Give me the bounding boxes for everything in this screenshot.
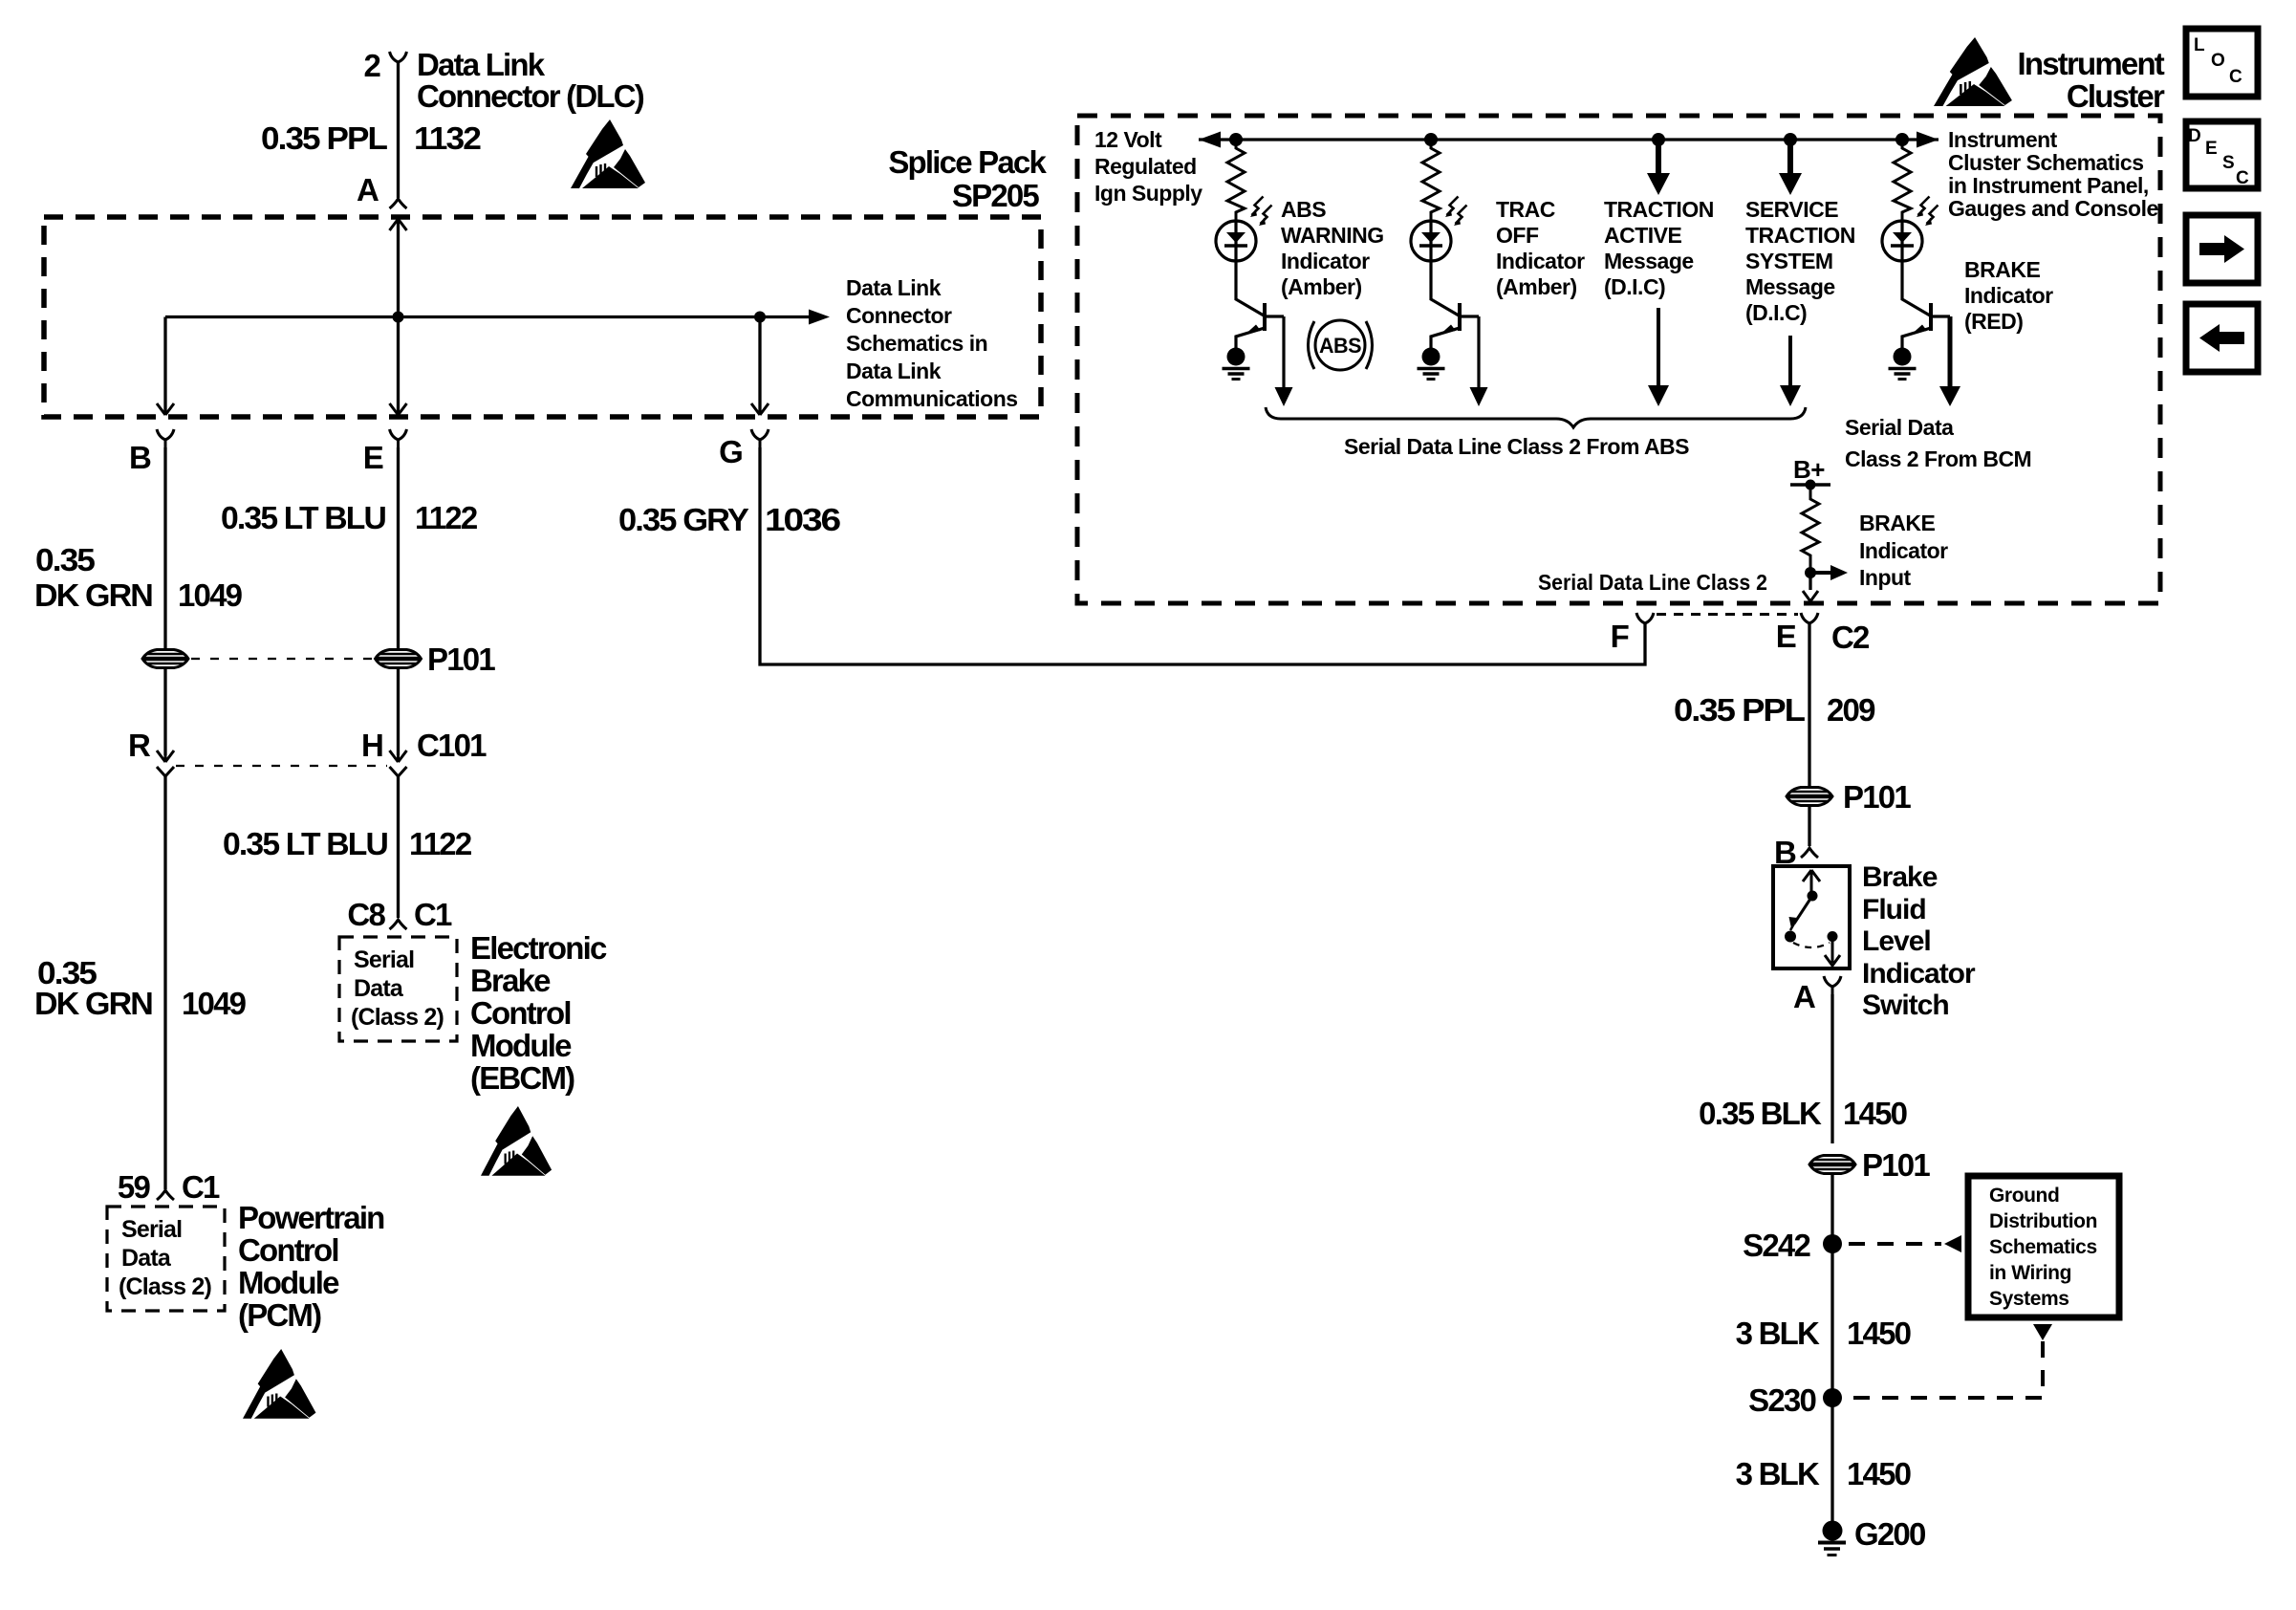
svg-text:C2: C2 — [1831, 620, 1870, 655]
svg-text:Powertrain: Powertrain — [238, 1200, 384, 1235]
svg-text:B: B — [1774, 835, 1796, 870]
svg-text:1132: 1132 — [414, 120, 482, 156]
svg-text:Serial: Serial — [121, 1216, 182, 1243]
svg-text:Indicator: Indicator — [1496, 249, 1585, 273]
svg-text:Indicator: Indicator — [1964, 283, 2053, 308]
svg-text:Systems: Systems — [1989, 1288, 2069, 1310]
svg-text:DK GRN: DK GRN — [34, 986, 152, 1021]
svg-text:Data Link: Data Link — [417, 47, 546, 82]
svg-text:TRAC: TRAC — [1496, 197, 1555, 222]
svg-text:Data: Data — [354, 975, 404, 1002]
svg-text:Electronic: Electronic — [470, 930, 607, 966]
svg-text:Message: Message — [1604, 249, 1694, 273]
svg-text:B+: B+ — [1793, 455, 1825, 484]
svg-text:B: B — [129, 440, 151, 475]
svg-text:(Class 2): (Class 2) — [351, 1004, 444, 1031]
svg-text:A: A — [357, 172, 379, 207]
svg-text:Data Link: Data Link — [846, 359, 942, 383]
svg-text:Brake: Brake — [470, 963, 551, 998]
svg-text:1049: 1049 — [178, 577, 243, 613]
svg-text:3 BLK: 3 BLK — [1736, 1456, 1820, 1491]
svg-text:3 BLK: 3 BLK — [1736, 1316, 1820, 1351]
svg-text:E: E — [2205, 139, 2218, 159]
svg-text:S: S — [2222, 153, 2235, 173]
svg-text:209: 209 — [1827, 692, 1875, 728]
svg-text:S242: S242 — [1743, 1228, 1810, 1263]
svg-text:in Instrument Panel,: in Instrument Panel, — [1948, 173, 2149, 198]
svg-text:0.35 PPL: 0.35 PPL — [1674, 692, 1806, 728]
svg-text:(D.I.C): (D.I.C) — [1745, 300, 1807, 325]
svg-text:C101: C101 — [417, 728, 487, 763]
svg-text:BRAKE: BRAKE — [1964, 257, 2040, 282]
svg-text:ACTIVE: ACTIVE — [1604, 223, 1682, 248]
svg-text:BRAKE: BRAKE — [1859, 511, 1935, 535]
svg-text:Indicator: Indicator — [1859, 538, 1948, 563]
svg-text:(PCM): (PCM) — [238, 1297, 321, 1333]
svg-text:Module: Module — [470, 1028, 572, 1063]
svg-text:(D.I.C): (D.I.C) — [1604, 274, 1665, 299]
svg-text:1450: 1450 — [1843, 1096, 1907, 1131]
svg-text:TRACTION: TRACTION — [1745, 223, 1855, 248]
svg-text:Indicator: Indicator — [1862, 958, 1976, 990]
svg-text:Connector (DLC): Connector (DLC) — [417, 78, 644, 114]
svg-text:E: E — [363, 440, 383, 475]
svg-text:(EBCM): (EBCM) — [470, 1060, 574, 1096]
svg-text:S230: S230 — [1748, 1382, 1815, 1418]
svg-text:F: F — [1611, 619, 1629, 654]
svg-text:ABS: ABS — [1319, 334, 1361, 358]
svg-text:OFF: OFF — [1496, 223, 1539, 248]
svg-text:Input: Input — [1859, 565, 1912, 590]
svg-text:59: 59 — [118, 1169, 151, 1205]
svg-text:Control: Control — [470, 995, 571, 1031]
svg-text:Message: Message — [1745, 274, 1835, 299]
svg-text:C: C — [2236, 168, 2249, 188]
svg-text:R: R — [128, 728, 151, 763]
svg-text:P101: P101 — [427, 642, 495, 677]
svg-text:1450: 1450 — [1847, 1316, 1911, 1351]
svg-text:Serial Data Line Class 2 From: Serial Data Line Class 2 From ABS — [1344, 434, 1689, 459]
svg-text:Serial Data: Serial Data — [1845, 415, 1954, 440]
svg-text:SERVICE: SERVICE — [1745, 197, 1838, 222]
svg-text:Communications: Communications — [846, 386, 1018, 411]
svg-text:Ign Supply: Ign Supply — [1094, 181, 1202, 206]
svg-text:A: A — [1793, 979, 1815, 1014]
svg-text:Cluster: Cluster — [2067, 78, 2165, 114]
svg-text:12 Volt: 12 Volt — [1094, 127, 1162, 152]
svg-text:L: L — [2194, 35, 2205, 55]
svg-text:2: 2 — [363, 48, 380, 83]
svg-text:Regulated: Regulated — [1094, 154, 1197, 179]
svg-text:1036: 1036 — [765, 502, 841, 537]
svg-text:Instrument: Instrument — [2017, 46, 2164, 81]
svg-text:Connector: Connector — [846, 303, 952, 328]
svg-text:Gauges and Console: Gauges and Console — [1948, 196, 2158, 221]
svg-text:Splice Pack: Splice Pack — [888, 144, 1047, 180]
svg-text:C8: C8 — [347, 897, 385, 932]
svg-text:Data: Data — [121, 1245, 172, 1272]
svg-text:DK GRN: DK GRN — [34, 577, 152, 613]
svg-text:TRACTION: TRACTION — [1604, 197, 1714, 222]
svg-text:ABS: ABS — [1281, 197, 1326, 222]
svg-text:Serial: Serial — [354, 946, 414, 973]
svg-text:C1: C1 — [182, 1169, 220, 1205]
svg-text:Indicator: Indicator — [1281, 249, 1370, 273]
svg-text:Distribution: Distribution — [1989, 1210, 2097, 1232]
svg-text:Ground: Ground — [1989, 1185, 2059, 1207]
svg-text:H: H — [361, 728, 382, 763]
svg-text:Schematics: Schematics — [1989, 1236, 2097, 1258]
svg-text:P101: P101 — [1843, 779, 1911, 815]
svg-text:(RED): (RED) — [1964, 309, 2023, 334]
svg-text:(Class 2): (Class 2) — [119, 1273, 211, 1300]
svg-text:1122: 1122 — [409, 826, 472, 861]
svg-text:1450: 1450 — [1847, 1456, 1911, 1491]
svg-text:D: D — [2188, 126, 2201, 146]
svg-text:1122: 1122 — [415, 500, 478, 535]
svg-text:C1: C1 — [414, 897, 452, 932]
svg-text:C: C — [2229, 67, 2242, 87]
svg-text:Class 2 From BCM: Class 2 From BCM — [1845, 446, 2031, 471]
svg-text:0.35: 0.35 — [35, 542, 96, 577]
svg-text:Control: Control — [238, 1232, 338, 1268]
svg-text:0.35 PPL: 0.35 PPL — [261, 120, 388, 156]
svg-text:(Amber): (Amber) — [1281, 274, 1362, 299]
svg-text:Module: Module — [238, 1265, 339, 1300]
svg-text:0.35 LT BLU: 0.35 LT BLU — [223, 826, 387, 861]
svg-text:Data Link: Data Link — [846, 275, 942, 300]
svg-text:SP205: SP205 — [952, 178, 1040, 213]
svg-text:E: E — [1776, 619, 1796, 654]
svg-text:Fluid: Fluid — [1862, 894, 1926, 925]
svg-text:(Amber): (Amber) — [1496, 274, 1577, 299]
svg-text:Instrument: Instrument — [1948, 127, 2058, 152]
svg-text:Schematics in: Schematics in — [846, 331, 987, 356]
svg-text:0.35 GRY: 0.35 GRY — [618, 502, 749, 537]
svg-text:Switch: Switch — [1862, 990, 1949, 1021]
svg-text:0.35 LT BLU: 0.35 LT BLU — [221, 500, 385, 535]
svg-text:O: O — [2211, 51, 2225, 71]
svg-text:in Wiring: in Wiring — [1989, 1262, 2071, 1284]
svg-text:SYSTEM: SYSTEM — [1745, 249, 1833, 273]
svg-text:Serial Data Line Class 2: Serial Data Line Class 2 — [1538, 570, 1767, 595]
svg-text:WARNING: WARNING — [1281, 223, 1384, 248]
svg-text:Brake: Brake — [1862, 861, 1938, 893]
svg-text:Cluster Schematics: Cluster Schematics — [1948, 150, 2143, 175]
svg-text:G200: G200 — [1854, 1516, 1925, 1552]
svg-text:0.35 BLK: 0.35 BLK — [1699, 1096, 1822, 1131]
svg-text:P101: P101 — [1862, 1147, 1930, 1183]
svg-text:1049: 1049 — [182, 986, 247, 1021]
svg-text:G: G — [719, 434, 742, 469]
svg-text:Level: Level — [1862, 925, 1931, 957]
